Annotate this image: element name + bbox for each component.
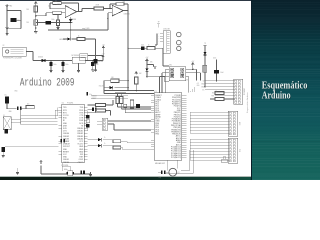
svg-text:GND: GND xyxy=(197,85,200,87)
svg-text:27R: 27R xyxy=(106,110,108,112)
svg-text:100n: 100n xyxy=(141,44,144,46)
svg-text:USBDM: USBDM xyxy=(92,96,98,98)
svg-text:473R: 473R xyxy=(57,4,60,6)
svg-text:LED5MM: LED5MM xyxy=(59,39,66,41)
svg-text:1k5: 1k5 xyxy=(27,104,29,106)
svg-text:22K: 22K xyxy=(48,6,51,8)
svg-text:LM358D: LM358D xyxy=(124,14,131,16)
svg-text:USBDP: USBDP xyxy=(92,98,97,100)
svg-text:Arduino 2009: Arduino 2009 xyxy=(20,78,75,90)
svg-text:10K: 10K xyxy=(150,61,153,63)
svg-text:Esquemático Arduino: Esquemático Arduino xyxy=(246,92,249,113)
svg-text:100n: 100n xyxy=(89,94,92,96)
svg-text:Q1: Q1 xyxy=(178,172,180,174)
svg-text:6MHz: 6MHz xyxy=(64,169,68,171)
svg-text:GND: GND xyxy=(201,87,204,89)
svg-text:100u: 100u xyxy=(65,64,68,66)
svg-text:100u: 100u xyxy=(53,64,56,66)
svg-text:100n: 100n xyxy=(51,19,54,21)
svg-text:10K: 10K xyxy=(139,73,142,75)
svg-text:GND: GND xyxy=(186,79,189,81)
svg-text:X1: X1 xyxy=(3,115,5,117)
svg-text:100n: 100n xyxy=(17,20,21,22)
svg-text:CON-USB: CON-USB xyxy=(163,29,170,31)
svg-text:22p: 22p xyxy=(159,177,161,179)
svg-text:IC1: IC1 xyxy=(154,91,157,93)
svg-text:47K: 47K xyxy=(123,2,126,4)
svg-text:LM358D: LM358D xyxy=(70,19,77,21)
svg-text:X2: X2 xyxy=(3,45,5,47)
svg-text:GND: GND xyxy=(201,84,204,86)
svg-text:10uF: 10uF xyxy=(220,72,223,74)
svg-text:10K: 10K xyxy=(111,77,114,79)
svg-text:RST: RST xyxy=(212,96,215,98)
svg-text:GND: GND xyxy=(9,111,12,113)
svg-text:+5V: +5V xyxy=(197,83,200,85)
svg-text:1N4004: 1N4004 xyxy=(38,56,43,58)
svg-text:Vin: Vin xyxy=(202,90,204,92)
svg-text:100n: 100n xyxy=(213,58,216,60)
svg-text:OK1: OK1 xyxy=(169,65,172,67)
svg-text:IC2: IC2 xyxy=(62,102,64,104)
svg-text:10u: 10u xyxy=(4,95,7,97)
svg-text:100n: 100n xyxy=(66,141,69,143)
svg-text:1N4148: 1N4148 xyxy=(99,85,104,87)
svg-text:MC33269D: MC33269D xyxy=(72,55,81,57)
svg-text:FT232RL: FT232RL xyxy=(62,165,69,167)
svg-text:POWERSUPPLY_DC21MM: POWERSUPPLY_DC21MM xyxy=(3,58,22,60)
svg-text:ampl_LED: ampl_LED xyxy=(82,28,90,30)
svg-text:IOL: IOL xyxy=(239,149,241,152)
svg-text:473R: 473R xyxy=(96,5,99,7)
svg-text:10uF: 10uF xyxy=(95,64,98,66)
svg-text:TP: TP xyxy=(204,43,206,45)
svg-text:27R: 27R xyxy=(106,105,108,107)
svg-text:3V3: 3V3 xyxy=(212,93,215,95)
svg-text:MEGA8-16PI: MEGA8-16PI xyxy=(155,162,165,165)
svg-text:BC547: BC547 xyxy=(98,61,103,63)
svg-text:5V: 5V xyxy=(203,81,205,83)
svg-text:Arduino: Arduino xyxy=(262,91,291,102)
svg-text:FT232RL: FT232RL xyxy=(67,102,73,104)
svg-text:TP: TP xyxy=(158,21,160,23)
